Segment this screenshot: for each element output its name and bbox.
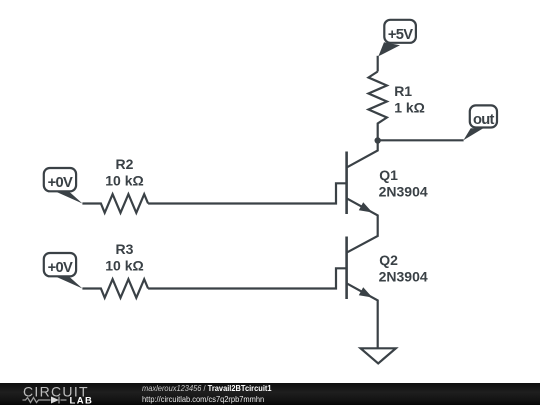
svg-text:+0V: +0V	[48, 175, 73, 191]
svg-text:R3: R3	[116, 241, 134, 257]
svg-text:Q1: Q1	[379, 167, 398, 183]
svg-text:2N3904: 2N3904	[379, 268, 428, 284]
svg-text:10 kΩ: 10 kΩ	[105, 257, 143, 273]
svg-text:LAB: LAB	[70, 396, 94, 405]
svg-text:Q2: Q2	[379, 252, 398, 268]
svg-text:R2: R2	[116, 156, 134, 172]
svg-text:R1: R1	[394, 83, 412, 99]
svg-text:2N3904: 2N3904	[379, 183, 428, 199]
svg-text:+0V: +0V	[48, 260, 73, 276]
svg-text:1 kΩ: 1 kΩ	[394, 99, 425, 115]
svg-text:out: out	[473, 112, 495, 128]
svg-text:10 kΩ: 10 kΩ	[105, 172, 143, 188]
svg-text:+5V: +5V	[388, 27, 413, 43]
